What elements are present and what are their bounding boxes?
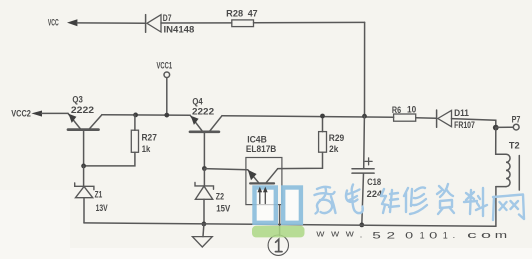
wire optocoupler collector to R29 bottom [278, 152, 323, 168]
wire junction to R27 [134, 115, 136, 130]
svg-text:P7: P7 [512, 115, 521, 125]
resistor R27 labels [142, 132, 157, 154]
svg-text:IN4148: IN4148 [164, 25, 195, 35]
wire Q4 collector along mid rail to R6 [222, 116, 394, 118]
diode D7 [146, 15, 161, 33]
svg-text:C18: C18 [367, 177, 381, 187]
wire D11 to P7 corner [452, 119, 496, 128]
junction C18 bottom on ground rail [359, 223, 364, 228]
svg-text:D11: D11 [454, 108, 469, 118]
node P7 label [512, 115, 521, 125]
svg-text:R27: R27 [142, 132, 157, 142]
junction Z2 bottom on ground rail [202, 222, 207, 227]
optocoupler light arrows [258, 187, 268, 204]
svg-text:c: c [467, 230, 478, 240]
svg-text:m: m [495, 230, 507, 240]
svg-text:5: 5 [372, 230, 381, 240]
svg-text:2: 2 [387, 230, 396, 240]
capacitor C18 [352, 116, 374, 225]
svg-text:224: 224 [367, 189, 382, 199]
transistor Q4 labels [192, 96, 214, 116]
node VCC arrow [67, 19, 77, 26]
node VCC1 label [157, 61, 173, 71]
resistor R29 [319, 132, 327, 153]
transistor Q4 [190, 115, 222, 168]
junction VCC1 on mid rail [164, 113, 169, 118]
zener Z1 [75, 166, 94, 223]
svg-text:FR107: FR107 [454, 120, 475, 130]
watermark green bar [252, 226, 305, 238]
svg-text:Q3: Q3 [72, 95, 82, 105]
wire R6 to D11 [416, 117, 436, 120]
svg-text:10: 10 [407, 105, 416, 115]
svg-text:Z1: Z1 [95, 190, 103, 200]
svg-text:w: w [330, 228, 340, 238]
transformer T2 [496, 128, 520, 227]
optocoupler IC4B box [246, 158, 282, 205]
svg-text:R28: R28 [226, 9, 243, 19]
resistor R28 [232, 20, 254, 27]
svg-text:47: 47 [248, 9, 258, 19]
wire R28 to top-right corner [254, 21, 365, 23]
svg-text:VCC2: VCC2 [11, 109, 31, 119]
wire optocoupler box bottom to test point [279, 205, 281, 236]
svg-text:1: 1 [443, 230, 448, 240]
wire R27 bottom to Q3 base junction [84, 152, 135, 166]
zener Z2 labels [216, 191, 231, 213]
svg-text:R29: R29 [329, 133, 344, 143]
svg-text:T2: T2 [509, 141, 520, 151]
svg-text:R6: R6 [392, 105, 401, 115]
ground [192, 224, 212, 247]
node VCC label [48, 18, 59, 28]
transistor Q3 labels [71, 95, 94, 115]
transformer T2 label [509, 141, 520, 151]
svg-text:o: o [481, 230, 491, 240]
wire junction to P7 terminal [496, 126, 513, 128]
wire top-right corner down to mid rail [364, 22, 366, 116]
svg-text:w: w [315, 228, 325, 238]
zener Z2 [195, 169, 214, 224]
svg-text:Q4: Q4 [192, 96, 202, 106]
svg-text:0: 0 [429, 230, 437, 240]
svg-text:2222: 2222 [71, 105, 94, 115]
optocoupler light arrows redrawn over watermark [258, 187, 268, 204]
node VCC2 label [11, 109, 31, 119]
svg-text:15V: 15V [216, 204, 230, 214]
watermark url line [315, 228, 507, 240]
svg-text:w: w [345, 228, 355, 238]
wire VCC2 to Q3 emitter [42, 112, 69, 114]
svg-text:VCC: VCC [48, 18, 59, 28]
svg-text:.: . [360, 229, 363, 239]
wire Q4 base to optocoupler emitter [204, 169, 247, 170]
junction Q3 base [81, 164, 86, 169]
capacitor C18 labels [367, 177, 382, 199]
svg-text:IC4B: IC4B [247, 135, 267, 145]
svg-text:VCC1: VCC1 [157, 61, 173, 71]
resistor R28 label [226, 9, 257, 19]
svg-text:13V: 13V [96, 203, 108, 213]
watermark blue glyphs [255, 188, 301, 223]
node VCC1 terminal [164, 72, 170, 115]
resistor R27 [131, 130, 138, 152]
wire Q3 collector along mid rail to Q4 [102, 114, 190, 117]
wire R29 top to mid rail [322, 116, 324, 132]
transistor Q3 [68, 113, 102, 165]
diode D7 labels [163, 13, 195, 35]
diode D11 [437, 110, 452, 127]
optocoupler phototransistor [248, 169, 278, 184]
junction Q4 base [202, 166, 207, 171]
node test point circled 1 [268, 235, 288, 255]
resistor R6 label [392, 105, 416, 116]
svg-text:1: 1 [420, 230, 425, 240]
resistor R6 [394, 114, 416, 121]
wire VCC arrow to D7 [77, 22, 145, 24]
optocoupler IC4B labels [246, 135, 277, 155]
resistor R29 labels [329, 133, 344, 154]
node VCC2 arrow [31, 111, 42, 117]
svg-text:EL817B: EL817B [246, 144, 277, 154]
svg-text:.: . [453, 230, 456, 240]
svg-text:D7: D7 [163, 13, 172, 23]
svg-text:2222: 2222 [192, 107, 214, 117]
svg-text:Z2: Z2 [216, 191, 224, 201]
svg-text:0: 0 [405, 230, 413, 240]
svg-text:2k: 2k [329, 144, 339, 154]
svg-text:1k: 1k [142, 144, 151, 154]
wire ground rail [84, 223, 496, 226]
wire D7 to R28 [161, 22, 232, 24]
diode D11 labels [454, 108, 475, 130]
node P7 terminal [513, 124, 519, 130]
junction R29 on mid rail [320, 114, 325, 119]
junction R27 top [133, 113, 138, 118]
junction C18 top on mid rail [362, 114, 367, 119]
zener Z1 labels [95, 190, 108, 213]
junction P7 [493, 125, 499, 131]
